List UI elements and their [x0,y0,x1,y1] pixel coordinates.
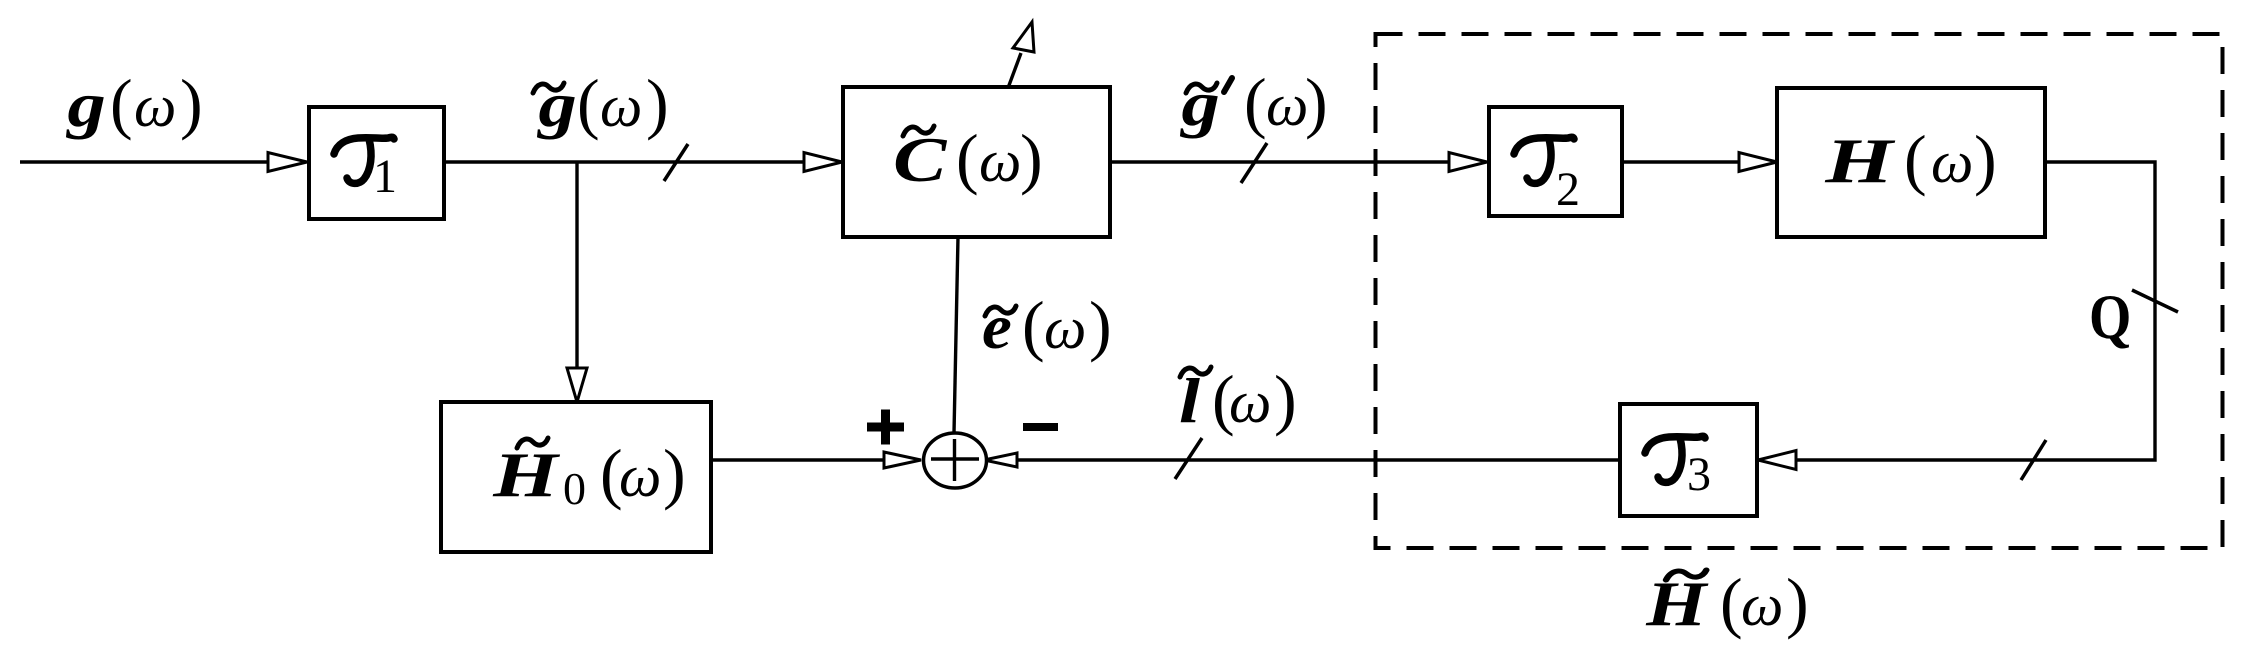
box H0 [441,402,711,552]
svg-text:ω: ω [600,73,642,139]
arrowhead into T1 [268,153,307,172]
arrowhead into summing node right [984,453,1017,467]
svg-text:): ) [1974,121,1997,197]
dashed box H~(omega) [1376,34,2223,548]
svg-text:2: 2 [1556,163,1580,216]
svg-text:(: ( [110,65,133,141]
svg-text:): ) [1786,564,1809,640]
summing node [924,433,987,488]
svg-text:ω: ω [979,128,1021,194]
svg-text:): ) [663,435,686,511]
arrowhead into H [1739,153,1777,172]
label l~(omega) [1179,361,1297,437]
wire T3 to summing node [1018,458,1620,461]
svg-text:ω: ω [1931,129,1973,195]
label H~(omega) under dashed box [1645,564,1809,640]
slash bus mark Q [2132,290,2178,312]
label g(omega) [65,65,202,141]
arrowhead into T3 [1758,451,1796,470]
slash bus mark 4 [2021,440,2046,480]
label T1 [334,137,397,203]
svg-text:ω: ω [134,73,176,139]
svg-text:g: g [1179,69,1220,140]
svg-text:(: ( [1904,121,1927,197]
node branch [575,162,578,369]
svg-text:g: g [65,70,106,141]
arrowhead into T2 [1449,153,1487,172]
slash bus mark 5 [1175,438,1202,479]
label minus [1023,423,1058,431]
label e~(omega) [982,287,1112,363]
svg-text:e: e [982,292,1012,362]
svg-text:g: g [536,70,577,141]
box T2 [1489,107,1622,216]
svg-text:ω: ω [1044,295,1086,361]
svg-text:H: H [1824,125,1896,196]
wire C to T2 [1110,160,1450,163]
svg-text:): ) [1089,287,1112,363]
slash bus mark 2 [1241,143,1267,183]
label T2 [1514,137,1580,216]
svg-text:(: ( [1244,64,1267,140]
svg-text:(: ( [1022,287,1045,363]
svg-text:): ) [1274,361,1297,437]
svg-text:(: ( [1720,564,1743,640]
slash bus mark 1 [664,144,688,181]
svg-text:0: 0 [563,463,586,514]
svg-text:): ) [1305,64,1328,140]
arrowhead up [1013,22,1034,52]
wire H0 to summing node [711,458,885,461]
svg-text:): ) [180,65,203,141]
svg-text:): ) [646,65,669,141]
svg-text:(: ( [577,65,600,141]
arrowhead into summing node left [884,452,921,468]
wire T1 to C [444,160,805,163]
wire T2 to H [1622,160,1740,163]
label Q [2089,281,2131,352]
label g~prime(omega) [1179,64,1327,140]
wire H down to T3 [1795,162,2155,460]
label C~(omega) [893,120,1043,196]
wire input g(omega) [20,160,269,163]
svg-text:C: C [893,124,947,196]
svg-text:1: 1 [373,150,397,203]
svg-text:H: H [1645,569,1709,639]
svg-text:ω: ω [1229,369,1271,435]
svg-text:): ) [1020,120,1043,196]
svg-text:(: ( [956,120,979,196]
label H(omega) [1824,121,1996,197]
box T3 [1620,404,1757,516]
box H [1777,88,2045,237]
svg-text:Q: Q [2089,281,2131,352]
box T1 [309,107,444,219]
svg-text:ω: ω [1266,72,1308,138]
svg-text:l: l [1179,366,1201,436]
label H~0(omega) [492,435,685,514]
label T3 [1645,436,1711,501]
svg-text:3: 3 [1687,448,1711,501]
svg-text:ω: ω [619,443,661,509]
svg-text:H: H [492,440,560,511]
arrowhead into C [804,153,842,172]
wire up out of C [1008,53,1021,88]
label g~(omega) [533,65,669,141]
svg-text:ω: ω [1741,572,1783,638]
wire summing node up to C [954,237,958,433]
box C [843,87,1110,237]
label plus [867,410,904,445]
arrowhead into H0 [567,368,587,402]
